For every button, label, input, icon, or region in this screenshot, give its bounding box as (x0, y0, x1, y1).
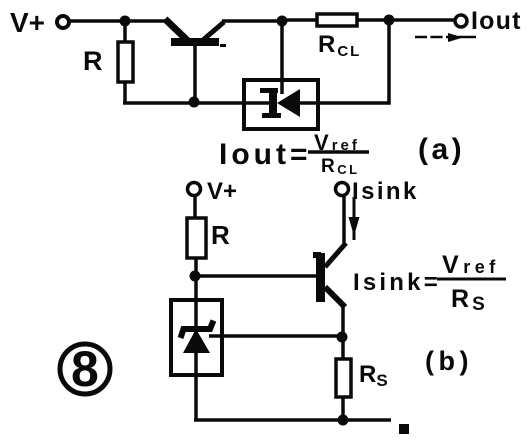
node D junction (base rail) (189, 97, 200, 108)
transistor Q1 emitter (165, 19, 188, 41)
svg-text:V+: V+ (207, 178, 237, 205)
transistor Q1 collector (203, 22, 224, 40)
svg-text:Isink=: Isink= (353, 269, 441, 296)
svg-text:Isink: Isink (352, 178, 419, 205)
svg-text:Iout: Iout (471, 7, 522, 35)
zener D2 anode triangle (183, 329, 210, 353)
node B junction (277, 16, 288, 27)
wire inside box left to diode cathode (244, 101, 270, 105)
wire Q1 collector to node B (222, 19, 282, 23)
wire Q2 collector to Isink terminal (342, 196, 346, 243)
node G junction (bottom rail) (338, 415, 349, 426)
wire R bottom to bottom rail (123, 82, 127, 103)
terminal V+ (circuit a) (57, 16, 69, 28)
wire node F to RS (341, 337, 345, 359)
terminal V+ (circuit b) (188, 183, 201, 196)
wire node A to Q1 emitter (125, 19, 167, 23)
diode D1 anode triangle (277, 89, 300, 117)
wire node B to RCL (282, 18, 317, 22)
zener box U2 (171, 300, 222, 375)
transistor Q2 emitter (325, 287, 345, 307)
terminal Iout (455, 15, 467, 27)
wire node C to Iout terminal (389, 18, 455, 22)
wire V+ terminal to node A (70, 19, 123, 23)
transistor Q2 base bar (316, 253, 325, 302)
resistor R (circuit b) body (187, 218, 206, 258)
arrow Iout current direction (dashed) (415, 36, 450, 39)
wire node A to R top (123, 21, 127, 42)
svg-text:(a): (a) (418, 133, 465, 166)
svg-text:Iout=: Iout= (219, 138, 312, 171)
wire node E to Q2 base (195, 274, 316, 278)
wire node B down into reference box (280, 21, 284, 94)
wire Q1 base lead (193, 46, 197, 102)
transistor Q2 collector (325, 243, 346, 267)
terminal blob bottom right (399, 424, 409, 434)
wire R bottom through zener box to bottom rail (194, 258, 198, 420)
resistor RCL body (317, 14, 357, 26)
terminal Isink (336, 183, 349, 196)
wire diode anode to box right (298, 101, 318, 105)
diode D1 cathode bar (269, 88, 277, 118)
transistor Q1 base bar (171, 38, 219, 46)
node E junction (base node b) (190, 271, 201, 282)
svg-text:V+: V+ (10, 7, 45, 38)
wire RCL to node C (357, 18, 389, 22)
reference box U1 (244, 80, 318, 129)
svg-text:(b): (b) (425, 346, 473, 376)
svg-text:R: R (211, 220, 230, 250)
figure number 8 (60, 344, 110, 394)
wire box right up to node C (318, 20, 389, 103)
wire zener box to node F (209, 334, 342, 338)
svg-text:R: R (83, 46, 103, 76)
wire V+ terminal to R top (b) (193, 196, 197, 218)
wire bottom rail R to reference box (123, 101, 244, 105)
svg-text:8: 8 (71, 341, 99, 397)
wire bottom rail (194, 418, 391, 422)
node F junction (337, 332, 348, 343)
resistor RS body (336, 359, 351, 397)
resistor R (circuit a) body (118, 42, 133, 82)
wire Q2 emitter to node F (341, 306, 345, 337)
node A junction (120, 16, 131, 27)
wire RS to bottom rail (341, 397, 345, 420)
arrow Isink current direction (353, 197, 356, 240)
node C junction (384, 15, 395, 26)
zener D2 cathode bar (181, 321, 214, 339)
